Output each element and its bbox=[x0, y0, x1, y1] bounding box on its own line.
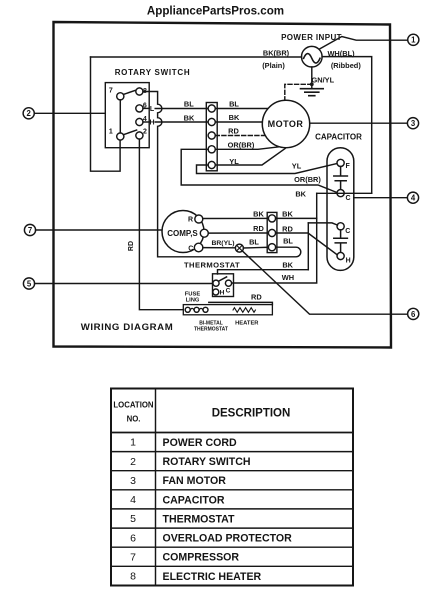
svg-text:7: 7 bbox=[28, 226, 32, 235]
svg-text:BK: BK bbox=[295, 189, 306, 198]
svg-text:BR(YL): BR(YL) bbox=[211, 240, 234, 247]
table header separator bbox=[111, 432, 353, 434]
wire BK strip1 to motor bbox=[215, 121, 262, 123]
svg-text:LING: LING bbox=[186, 298, 200, 304]
terminal C bottom bbox=[337, 223, 344, 230]
svg-text:ROTARY SWITCH: ROTARY SWITCH bbox=[115, 68, 191, 77]
svg-text:H: H bbox=[220, 290, 225, 297]
svg-text:3: 3 bbox=[411, 119, 416, 128]
svg-text:C: C bbox=[345, 195, 350, 202]
circled 2 bbox=[23, 108, 34, 119]
svg-text:OR(BR): OR(BR) bbox=[294, 175, 321, 184]
wire YL strip1 to motor bbox=[215, 149, 285, 165]
wire terminal 2 down to heater bbox=[139, 139, 183, 310]
svg-text:COMPRESSOR: COMPRESSOR bbox=[163, 552, 240, 564]
capacitor 2 plates bbox=[334, 230, 348, 253]
table outer border bbox=[111, 389, 353, 586]
capacitor 1 plates bbox=[334, 167, 348, 190]
strip2 pin RD bbox=[268, 229, 275, 236]
thermostat terminal right bbox=[225, 280, 231, 286]
svg-text:(Ribbed): (Ribbed) bbox=[331, 61, 362, 70]
connector strip 1 bbox=[206, 103, 217, 171]
svg-text:RD: RD bbox=[253, 224, 264, 233]
svg-text:BK: BK bbox=[282, 260, 293, 269]
svg-text:BK: BK bbox=[229, 113, 240, 122]
svg-text:YL: YL bbox=[292, 161, 302, 170]
table row separators bbox=[111, 452, 353, 567]
svg-text:COMP,S: COMP,S bbox=[167, 229, 198, 238]
wire BK thermostat bbox=[218, 270, 309, 274]
wire circled5 to thermostat bbox=[35, 283, 213, 285]
svg-text:THERMOSTAT: THERMOSTAT bbox=[184, 261, 240, 270]
stub terminal 6 bbox=[143, 107, 149, 109]
thermostat lever bbox=[218, 277, 226, 281]
terminal H bbox=[337, 252, 344, 259]
svg-text:L: L bbox=[150, 106, 155, 113]
svg-text:2: 2 bbox=[27, 109, 32, 118]
svg-text:RD: RD bbox=[228, 127, 239, 136]
svg-text:BL: BL bbox=[249, 238, 259, 247]
svg-text:OVERLOAD PROTECTOR: OVERLOAD PROTECTOR bbox=[163, 533, 293, 545]
wire terminal 8 down with hops bbox=[143, 92, 301, 257]
svg-text:2: 2 bbox=[130, 456, 136, 468]
wire C to overload bbox=[203, 247, 236, 249]
svg-text:7: 7 bbox=[109, 87, 113, 94]
svg-text:4: 4 bbox=[130, 494, 136, 506]
terminal 7 bbox=[117, 93, 124, 100]
terminal F bbox=[337, 159, 344, 166]
svg-text:WIRING DIAGRAM: WIRING DIAGRAM bbox=[81, 322, 174, 333]
wire BK power to rotary feed bbox=[91, 56, 302, 58]
svg-text:BK: BK bbox=[282, 210, 293, 219]
thermostat box bbox=[213, 274, 234, 297]
wire S to strip2 bbox=[208, 232, 268, 234]
svg-text:BK: BK bbox=[253, 210, 264, 219]
svg-text:1: 1 bbox=[130, 437, 136, 449]
wire circled2 to rotary box bbox=[34, 112, 105, 114]
svg-text:4: 4 bbox=[411, 194, 416, 203]
AC source P1 bbox=[302, 46, 323, 67]
heater element zigzag bbox=[233, 308, 255, 313]
svg-text:MOTOR: MOTOR bbox=[268, 119, 304, 129]
svg-text:RD: RD bbox=[128, 241, 135, 251]
wire WH down to thermostat bbox=[232, 193, 317, 283]
svg-text:CAPACITOR: CAPACITOR bbox=[315, 132, 362, 141]
terminal C comp bbox=[194, 243, 203, 252]
rotary switch box bbox=[105, 83, 149, 148]
svg-text:C: C bbox=[188, 246, 193, 253]
wire motor to circled 3 bbox=[310, 122, 408, 124]
svg-text:RD: RD bbox=[282, 224, 293, 233]
terminal 2 bbox=[136, 132, 143, 139]
svg-text:1: 1 bbox=[109, 128, 113, 135]
svg-text:7: 7 bbox=[130, 551, 136, 563]
wire OR strip1 to motor bbox=[215, 147, 278, 149]
lever from 1 bbox=[123, 130, 136, 135]
svg-text:NO.: NO. bbox=[127, 414, 141, 423]
thermostat terminal left bbox=[213, 280, 219, 286]
compressor body bbox=[162, 211, 204, 253]
circled 6 bbox=[408, 308, 419, 319]
ground symbol bbox=[301, 89, 324, 96]
svg-text:8: 8 bbox=[130, 571, 136, 583]
svg-text:RD: RD bbox=[251, 293, 262, 302]
strip2 pin BL bbox=[268, 244, 275, 251]
wire overload to strip2 bbox=[243, 246, 268, 249]
svg-text:CAPACITOR: CAPACITOR bbox=[163, 494, 225, 506]
dashed chassis wire to motor bbox=[285, 84, 312, 100]
overload protector symbol bbox=[235, 244, 243, 252]
svg-text:5: 5 bbox=[130, 513, 136, 525]
wire leader to circled 4 bbox=[354, 197, 408, 199]
svg-text:2: 2 bbox=[143, 128, 147, 135]
strip1 pin BK bbox=[208, 118, 215, 125]
circled 4 bbox=[407, 192, 418, 203]
junction dot GN bbox=[310, 82, 314, 86]
wire R to strip2 bbox=[203, 217, 268, 219]
wire C-C link bbox=[308, 223, 337, 225]
svg-text:WH: WH bbox=[282, 273, 294, 282]
stub terminal 4 bbox=[143, 121, 149, 123]
wire overload diagonal to circled 6 bbox=[243, 251, 408, 314]
terminal 8 bbox=[136, 88, 143, 95]
circled 1 bbox=[408, 34, 419, 45]
svg-text:OR(BR): OR(BR) bbox=[228, 140, 255, 149]
wire BL strip1 to motor bbox=[215, 108, 268, 110]
svg-text:POWER INPUT: POWER INPUT bbox=[281, 33, 342, 42]
svg-text:R: R bbox=[188, 217, 193, 224]
wire RD strip1 to motor dashed bbox=[215, 135, 266, 137]
circled 3 bbox=[407, 118, 418, 129]
strip2 pin BK bbox=[268, 215, 275, 222]
circled 5 bbox=[23, 278, 34, 289]
connector strip 2 bbox=[267, 212, 277, 252]
circled 7 bbox=[24, 224, 35, 235]
svg-text:BK(BR): BK(BR) bbox=[263, 49, 290, 58]
svg-text:FAN MOTOR: FAN MOTOR bbox=[163, 475, 227, 487]
svg-text:HEATER: HEATER bbox=[235, 321, 259, 327]
wire ground stem bbox=[311, 67, 313, 89]
thermostat terminal H bbox=[213, 289, 219, 295]
terminal C top bbox=[337, 190, 344, 197]
wire linking 7 and 1 bbox=[119, 100, 121, 133]
capacitor body bbox=[327, 148, 354, 271]
svg-text:6: 6 bbox=[130, 532, 136, 544]
terminal 1 bbox=[117, 133, 124, 140]
diagram frame bbox=[54, 22, 392, 348]
svg-text:GN/YL: GN/YL bbox=[312, 75, 335, 84]
strip1 pin YL bbox=[208, 161, 215, 168]
svg-text:F: F bbox=[346, 163, 351, 170]
fuse link symbol bbox=[185, 307, 190, 312]
terminal R bbox=[195, 215, 203, 223]
svg-text:BL: BL bbox=[229, 99, 239, 108]
table column separator bbox=[155, 389, 157, 586]
terminal 6 bbox=[136, 105, 143, 112]
wire BL rotary to strip1 bbox=[155, 108, 208, 110]
svg-text:H: H bbox=[346, 258, 351, 265]
svg-text:THERMOSTAT: THERMOSTAT bbox=[194, 327, 228, 333]
heater box bbox=[183, 305, 272, 315]
wire thermostat BK riser bbox=[307, 223, 309, 270]
svg-text:6: 6 bbox=[411, 310, 416, 319]
svg-text:THERMOSTAT: THERMOSTAT bbox=[163, 514, 236, 526]
motor M1 bbox=[262, 100, 309, 147]
svg-text:BL: BL bbox=[184, 100, 194, 109]
strip1 pin RD bbox=[208, 132, 215, 139]
wire power drop to rotary common bbox=[91, 57, 121, 171]
svg-text:AppliancePartsPros.com: AppliancePartsPros.com bbox=[147, 5, 284, 18]
svg-text:LOCATION: LOCATION bbox=[113, 401, 154, 410]
svg-text:DESCRIPTION: DESCRIPTION bbox=[212, 407, 291, 419]
svg-text:H: H bbox=[149, 120, 154, 127]
heater box top wire bbox=[209, 302, 273, 304]
wire YL loop to capacitor F bbox=[197, 164, 338, 174]
wire BK strip2 to line junction bbox=[276, 217, 317, 219]
wire WH line through C bbox=[317, 192, 372, 194]
svg-text:(Plain): (Plain) bbox=[262, 61, 285, 70]
svg-text:1: 1 bbox=[411, 36, 416, 45]
svg-text:BK: BK bbox=[184, 113, 195, 122]
wire BK rotary to strip1 bbox=[155, 121, 208, 123]
svg-text:C: C bbox=[226, 287, 231, 294]
leader to circled 1 bbox=[320, 37, 408, 50]
terminal 4 bbox=[136, 118, 143, 125]
svg-text:FUSE: FUSE bbox=[185, 292, 201, 298]
wire circled7 to compressor bbox=[36, 229, 163, 231]
svg-text:5: 5 bbox=[27, 279, 32, 288]
wire OR loop to capacitor C bbox=[181, 149, 337, 192]
wire RD strip2 to capacitor H bbox=[276, 233, 338, 255]
lever from 7 bbox=[123, 90, 137, 95]
svg-text:BL: BL bbox=[283, 237, 293, 246]
svg-text:ROTARY SWITCH: ROTARY SWITCH bbox=[163, 456, 251, 468]
svg-text:3: 3 bbox=[130, 475, 136, 487]
svg-text:POWER CORD: POWER CORD bbox=[163, 437, 238, 449]
strip1 pin OR bbox=[208, 146, 215, 153]
terminal S bbox=[200, 229, 208, 237]
strip1 pin BL bbox=[208, 105, 215, 112]
svg-text:ELECTRIC HEATER: ELECTRIC HEATER bbox=[163, 571, 262, 583]
wire WH power right bbox=[322, 57, 372, 194]
svg-text:C: C bbox=[345, 228, 350, 235]
